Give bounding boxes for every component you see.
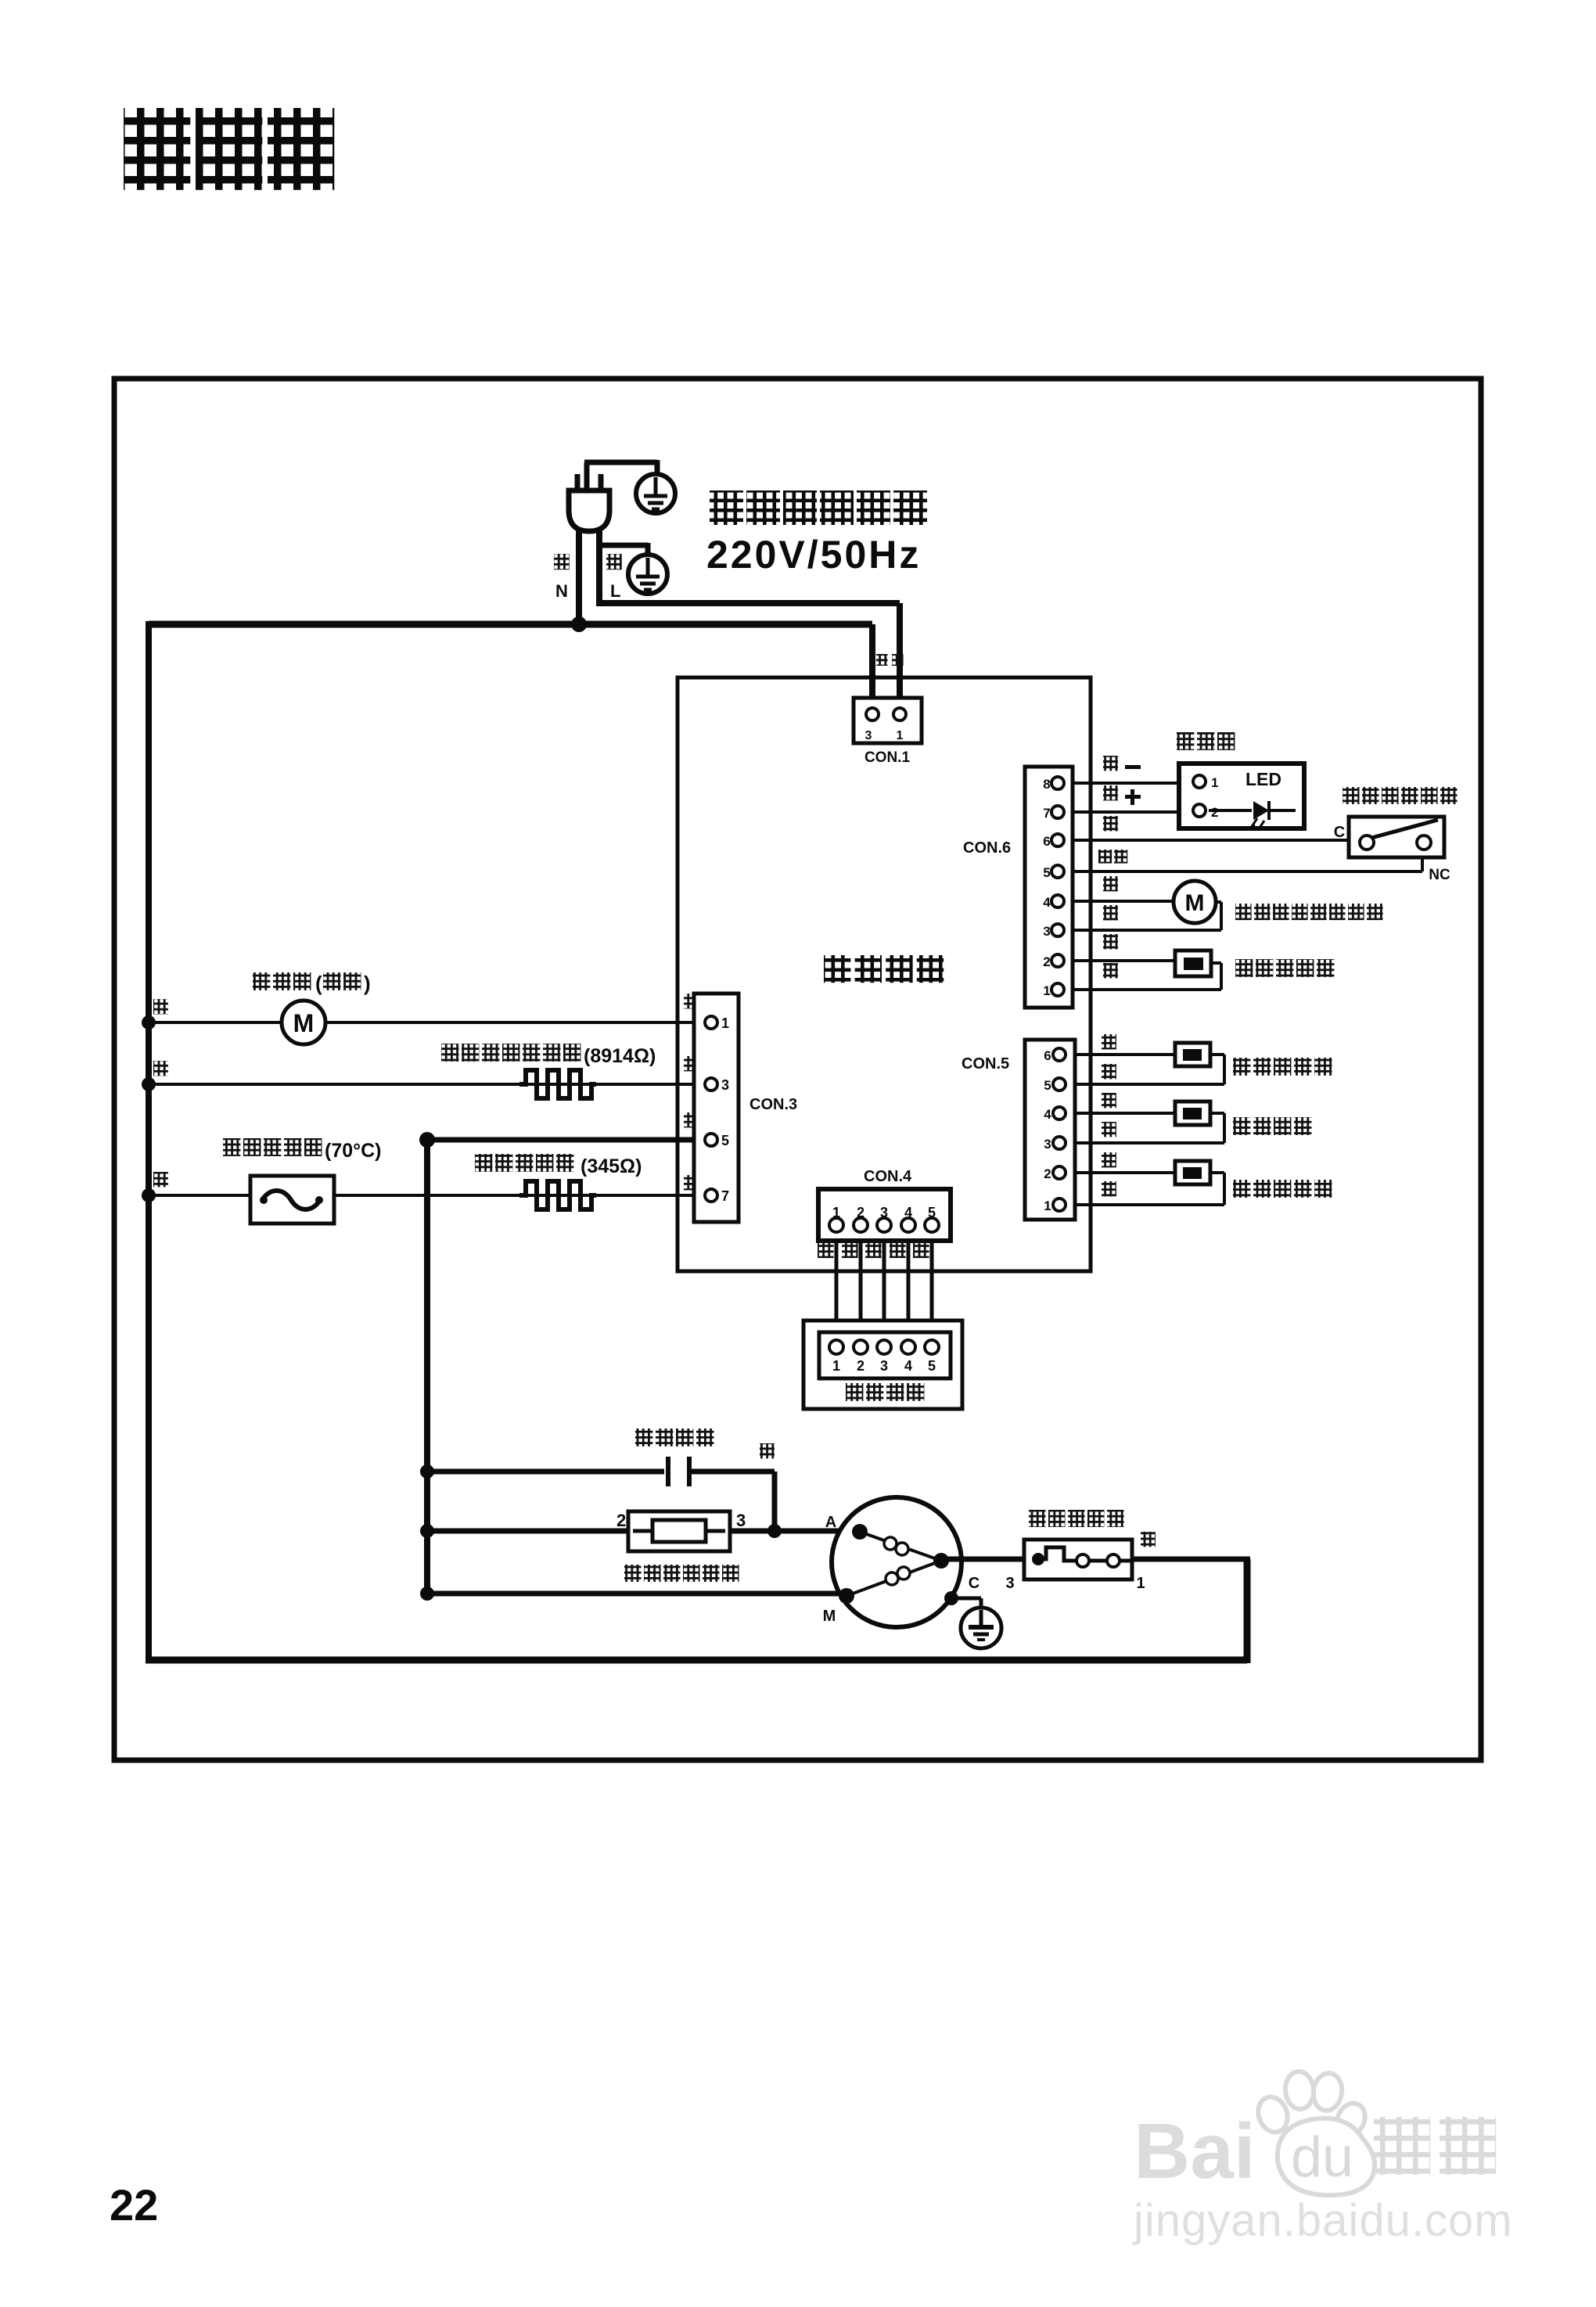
svg-text:6: 6 xyxy=(1044,1048,1051,1063)
LED board 库内灯 xyxy=(1177,732,1304,828)
wire color labels 白红棕灰绿 xyxy=(818,1242,929,1258)
sensor RT3 除霜探头 xyxy=(1175,1101,1311,1135)
connector CON.6 xyxy=(963,767,1073,1008)
label: 电源线及插头 xyxy=(710,491,927,525)
wire: pin3 sensor return (黄) xyxy=(1064,1113,1224,1143)
wire: bus to compressor pin A xyxy=(420,1524,860,1538)
label 棕 (CON.1) xyxy=(892,654,904,666)
wire: pin5 to door switch NC (浅蓝) xyxy=(1064,851,1422,871)
wire: black to solenoid valve xyxy=(142,1015,705,1030)
sensor RT4 蒸发器探头 xyxy=(1175,1161,1332,1198)
svg-text:L: L xyxy=(610,581,620,601)
connector CON.3 xyxy=(694,994,797,1222)
page number 22 xyxy=(110,2180,158,2230)
wire: pin5 sensor return (白) xyxy=(1064,1055,1224,1084)
wire: gray junction to pin5 xyxy=(427,1137,705,1143)
svg-text:M: M xyxy=(1185,890,1205,916)
door switch 冷藏室门开关 xyxy=(1334,787,1458,883)
svg-text:M: M xyxy=(293,1009,315,1037)
svg-text:1: 1 xyxy=(1136,1575,1145,1592)
wire: pin4 to fan motor (蓝) xyxy=(1064,900,1174,903)
wire: pin1 sensor return (橙) xyxy=(1064,963,1221,990)
wire: black to heater R1 xyxy=(142,1077,705,1091)
wire: black through thermal fuse xyxy=(142,1188,705,1202)
svg-text:3: 3 xyxy=(1044,1137,1051,1152)
svg-text:4: 4 xyxy=(1043,895,1051,910)
svg-text:1: 1 xyxy=(832,1358,840,1374)
svg-text:6: 6 xyxy=(1043,834,1050,849)
connector CON.5 xyxy=(962,1040,1075,1220)
label 黑 (fuse row) xyxy=(153,1172,168,1187)
svg-text:220V/50Hz: 220V/50Hz xyxy=(706,533,921,577)
label 灰 (pin5) xyxy=(684,1112,699,1127)
label 黑 (relay out) xyxy=(1141,1532,1156,1547)
watermark Baidu 经验 xyxy=(1132,2071,1513,2246)
wire: pin2 to freezer sensor (橙) xyxy=(1064,959,1175,962)
svg-text:CON.6: CON.6 xyxy=(963,839,1011,857)
svg-text:CON.5: CON.5 xyxy=(962,1055,1009,1073)
svg-text:4: 4 xyxy=(1044,1107,1051,1122)
wire: bottom bus xyxy=(146,1657,1247,1664)
labels 3 / 1 (relay pins) xyxy=(1136,1575,1145,1592)
wire L: plug to CON.1 pin 1 xyxy=(599,603,900,708)
svg-text:2: 2 xyxy=(1044,1166,1051,1181)
wire color labels 白- 黄+ 灰 浅蓝 蓝 红 橙 橙 xyxy=(1098,756,1141,978)
svg-text:5: 5 xyxy=(928,1358,936,1374)
wire N: plug to junction xyxy=(576,528,582,624)
svg-text:2: 2 xyxy=(1043,954,1050,969)
svg-text:A: A xyxy=(825,1514,836,1531)
svg-text:5: 5 xyxy=(1044,1078,1051,1093)
svg-text:LED: LED xyxy=(1246,769,1281,789)
wire: pin1 sensor return (黑) xyxy=(1064,1173,1224,1205)
label 橙 (pin3) xyxy=(684,1056,699,1071)
svg-text:C: C xyxy=(1334,824,1345,841)
svg-text:5: 5 xyxy=(1043,865,1050,880)
label 紫 (pin1) xyxy=(684,994,699,1008)
LED D1 xyxy=(1209,801,1296,830)
svg-text:(70°C): (70°C) xyxy=(325,1140,382,1162)
label 黑 (solenoid row) xyxy=(153,999,168,1014)
svg-text:Bai: Bai xyxy=(1134,2108,1256,2195)
svg-text:5: 5 xyxy=(721,1133,729,1148)
sensor RT2 冷藏室探头 xyxy=(1175,1043,1332,1076)
wire: pin3 fan return (红) xyxy=(1064,902,1221,930)
svg-text:3: 3 xyxy=(865,729,872,742)
page title 电路图 xyxy=(124,108,334,190)
control board 控制基板 xyxy=(678,677,1091,1271)
label: 220V/50Hz xyxy=(706,533,921,577)
compressor motor M1 xyxy=(823,1497,962,1627)
run capacitor 运转电容 xyxy=(635,1428,714,1486)
wire: pin2 to evaporator sensor (黑) xyxy=(1064,1171,1175,1174)
svg-text:1: 1 xyxy=(897,729,904,742)
svg-text:2: 2 xyxy=(857,1358,864,1374)
svg-text:N: N xyxy=(555,581,568,601)
wire: pin8 to LED pin1 (白-) xyxy=(1064,782,1195,785)
node: gray junction xyxy=(419,1132,435,1148)
svg-text:1: 1 xyxy=(1044,1198,1051,1213)
label 黑 (heater row) xyxy=(153,1061,168,1076)
svg-text:C: C xyxy=(969,1575,980,1592)
display board 显示基板 xyxy=(803,1321,962,1409)
svg-text:22: 22 xyxy=(110,2180,158,2230)
svg-text:(345Ω): (345Ω) xyxy=(581,1155,642,1177)
connector CON.1 xyxy=(854,698,922,766)
wire: bus to run capacitor xyxy=(420,1464,664,1479)
thermal fuse 温度保险丝(70°C) xyxy=(223,1138,382,1224)
node: capacitor/relay junction xyxy=(767,1524,782,1538)
wire: pin4 to defrost sensor (黄) xyxy=(1064,1112,1175,1115)
wire: bus to compressor pin M xyxy=(420,1587,847,1601)
compressor starter 压缩机启动器 xyxy=(616,1511,746,1582)
node: N junction xyxy=(571,616,587,632)
svg-text:7: 7 xyxy=(1043,806,1050,821)
label 棕 L xyxy=(606,554,622,601)
power plug xyxy=(569,474,609,531)
svg-text:3: 3 xyxy=(1005,1575,1014,1592)
svg-text:CON.3: CON.3 xyxy=(749,1096,797,1113)
svg-text:): ) xyxy=(364,972,371,995)
wire N: junction to CON.1 pin 3 xyxy=(149,624,872,708)
wire: capacitor to node A xyxy=(692,1472,775,1531)
wire: compressor C to overload relay xyxy=(941,1557,1026,1562)
svg-text:2: 2 xyxy=(1211,805,1218,820)
svg-text:7: 7 xyxy=(721,1188,729,1204)
plug live terminal L xyxy=(628,555,667,594)
wire: compressor bus xyxy=(424,1140,430,1594)
svg-text:3: 3 xyxy=(736,1511,746,1530)
wire: pin7 to LED pin2 (黄+) xyxy=(1064,810,1195,814)
svg-text:NC: NC xyxy=(1429,867,1450,883)
wire color labels 白白黄黄黑黑 xyxy=(1102,1034,1116,1196)
wire: overload relay to right return xyxy=(1132,1557,1250,1562)
label 蓝 (CON.1) xyxy=(876,654,888,666)
fan motor M2 蒸发器用风扇电机 xyxy=(1174,881,1383,923)
compressor case ground xyxy=(944,1591,1001,1648)
svg-text:3: 3 xyxy=(1043,924,1050,939)
connector CON.4 xyxy=(818,1168,951,1241)
svg-text:8: 8 xyxy=(1043,777,1050,792)
svg-text:M: M xyxy=(823,1608,836,1625)
label C 3 (compressor pins) xyxy=(969,1575,1015,1592)
svg-text:1: 1 xyxy=(721,1015,729,1031)
plug earth terminal xyxy=(636,474,675,513)
svg-text:1: 1 xyxy=(1211,775,1218,790)
svg-text:(: ( xyxy=(315,972,322,995)
svg-text:3: 3 xyxy=(721,1077,729,1093)
overload relay 过载继电器 xyxy=(1024,1510,1132,1579)
wires: CON.4 to display board xyxy=(836,1232,932,1340)
wire: left bus xyxy=(146,621,152,1660)
wire: right return to overload relay xyxy=(1244,1559,1251,1663)
solenoid valve M1 电磁阀(三通) xyxy=(253,972,371,1044)
svg-text:CON.1: CON.1 xyxy=(864,749,911,766)
svg-text:CON.4: CON.4 xyxy=(864,1168,912,1185)
label 白 (capacitor) xyxy=(760,1443,775,1458)
svg-text:2: 2 xyxy=(616,1511,626,1530)
sensor RT1 冷冻室探头 xyxy=(1175,950,1334,977)
svg-text:1: 1 xyxy=(1043,983,1050,998)
svg-text:jingyan.baidu.com: jingyan.baidu.com xyxy=(1132,2195,1513,2246)
heater R2 除霜加热器(345Ω) xyxy=(475,1154,642,1209)
heater R1 回风加热器(8914Ω) xyxy=(441,1044,656,1098)
svg-text:4: 4 xyxy=(904,1358,912,1374)
wire: cord from plug top to earth pin xyxy=(584,460,657,494)
svg-text:du: du xyxy=(1291,2126,1353,2189)
wire: pin6 to fridge sensor (白) xyxy=(1064,1053,1175,1056)
label 蓝 N xyxy=(554,554,570,601)
wire: live branch to L terminal xyxy=(596,528,648,606)
svg-text:3: 3 xyxy=(880,1358,888,1374)
wire: pin6 to door switch C (灰) xyxy=(1064,839,1361,842)
label 白 (pin7) xyxy=(684,1175,699,1190)
svg-text:(8914Ω): (8914Ω) xyxy=(584,1045,656,1067)
